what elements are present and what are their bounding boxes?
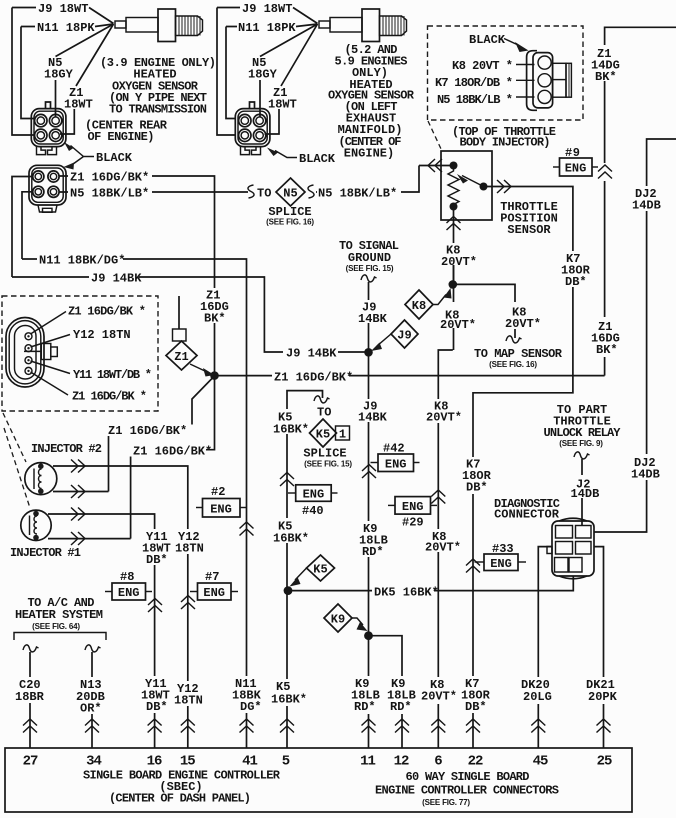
squiggle C20 <box>23 645 39 652</box>
svg-text:HEATER SYSTEM: HEATER SYSTEM <box>15 608 103 622</box>
svg-text:GROUND: GROUND <box>348 251 391 265</box>
oxygen sensor B1 body <box>115 9 203 42</box>
svg-text:20PK: 20PK <box>588 690 618 704</box>
arrow Z1 splice to junction <box>190 364 206 372</box>
svg-text:15: 15 <box>180 754 195 770</box>
label K5 16BK upper <box>272 409 308 434</box>
svg-text:J9 14BK: J9 14BK <box>91 272 142 286</box>
pin leader lines <box>31 312 67 335</box>
dashed leader to TPS box <box>428 121 442 150</box>
svg-text:DB*: DB* <box>565 275 587 289</box>
svg-text:20VT*: 20VT* <box>425 541 461 555</box>
connector chevron pin45 <box>531 719 545 733</box>
svg-text:K8 20VT *: K8 20VT * <box>452 59 513 73</box>
wire injector 2 bottom to Z1 <box>53 491 109 493</box>
connector chevron pin34 <box>85 719 99 733</box>
svg-text:BK*: BK* <box>596 343 618 357</box>
svg-text:J9 18WT: J9 18WT <box>38 2 88 16</box>
wire Z1 16DG/BK label-1 riser (injector 2) <box>192 376 215 425</box>
junction node K9 <box>364 631 373 640</box>
svg-text:Z1: Z1 <box>174 350 188 364</box>
label N13 20DB OR <box>73 677 109 714</box>
connector chevron into TPS <box>428 159 442 172</box>
injector #2 symbol <box>25 463 57 495</box>
svg-text:ENG: ENG <box>565 162 587 176</box>
svg-text:#40: #40 <box>302 504 324 518</box>
ENG #40 inline connector <box>296 485 332 502</box>
svg-text:1: 1 <box>339 428 346 442</box>
svg-text:ENG: ENG <box>490 557 512 571</box>
squiggle N13 <box>85 645 101 652</box>
label K9 18LB RD pin11 <box>349 676 384 714</box>
svg-text:INJECTOR #1: INJECTOR #1 <box>10 546 81 560</box>
svg-text:J9 14BK: J9 14BK <box>286 347 337 361</box>
wire C2 pin to J9 trunk <box>12 177 33 278</box>
wire C20 18BR <box>29 652 31 748</box>
wire J2 14DB <box>581 459 583 525</box>
svg-text:18GY: 18GY <box>248 68 278 82</box>
arrow K5 splice to junction <box>295 568 307 580</box>
SBEC box <box>5 748 632 812</box>
splice symbol Z1 diamond with pin box <box>178 296 180 329</box>
svg-text:BLACK: BLACK <box>299 152 336 166</box>
wire DJ2 14DB from right edge <box>647 139 676 186</box>
svg-text:CONNECTOR: CONNECTOR <box>494 508 560 522</box>
label Y11 18WT DB mid <box>141 529 171 565</box>
connector chevron pin41 <box>240 719 254 733</box>
junction node K5/DK5 <box>284 586 293 595</box>
arrow K8 splice to junction <box>433 295 446 305</box>
svg-text:ENG: ENG <box>210 503 232 517</box>
svg-text:DB*: DB* <box>146 700 168 714</box>
svg-text:BK*: BK* <box>595 70 617 84</box>
wire N5 18BK/LB from connector C2 <box>59 191 248 193</box>
svg-text:ENG: ENG <box>118 586 140 600</box>
connector chevron J9 <box>362 465 376 479</box>
svg-text:TO MAP SENSOR: TO MAP SENSOR <box>474 347 563 361</box>
svg-text:BLACK: BLACK <box>469 33 506 47</box>
label K8 20VT below junction <box>438 302 476 328</box>
svg-text:18TN: 18TN <box>175 542 204 556</box>
svg-text:11: 11 <box>360 754 375 770</box>
svg-text:#8: #8 <box>120 570 134 584</box>
label K7 18OR DB upper <box>561 251 589 287</box>
svg-text:Y12 18TN: Y12 18TN <box>73 328 131 342</box>
svg-text:N5 18BK/LB *: N5 18BK/LB * <box>437 93 513 107</box>
connector chevron pin15 <box>181 719 195 733</box>
connector chevron pin22 <box>466 719 480 733</box>
connector chevron pin25 <box>597 719 611 733</box>
wire Z1 16DG/BK from connector C2 top pin <box>59 176 215 376</box>
wire DK21 20PK <box>594 547 604 748</box>
label K7 18OR DB mid <box>461 457 491 494</box>
svg-text:(SEE FIG. 64): (SEE FIG. 64) <box>32 622 80 631</box>
wire K7 from TPS wiper <box>473 187 573 749</box>
svg-text:K8: K8 <box>412 299 426 313</box>
dashed leaders to injectors <box>3 413 26 462</box>
potentiometer resistor element <box>448 168 459 206</box>
splice symbol J9 diamond <box>391 320 418 348</box>
svg-text:6: 6 <box>434 754 442 770</box>
label K9 18LB RD pin12 <box>385 676 420 714</box>
connector C2 harness-side (4-pin) <box>29 165 66 212</box>
label K8 20VT mid trunk <box>424 399 460 423</box>
junction node Z1 <box>210 371 219 380</box>
svg-text:20VT*: 20VT* <box>421 690 457 704</box>
connector C1 sensor-side (4-pin) <box>31 102 66 155</box>
squiggle to part throttle unlock relay <box>574 452 590 459</box>
label Y11 18WT DB bottom <box>139 676 172 713</box>
svg-text:OF ENGINE): OF ENGINE) <box>88 130 155 144</box>
wire Z1 14DG/BK from top right <box>605 27 676 45</box>
svg-text:20VT*: 20VT* <box>441 255 477 269</box>
svg-text:Z1 16DG/BK*: Z1 16DG/BK* <box>274 371 353 385</box>
svg-text:#7: #7 <box>205 570 219 584</box>
svg-text:14DB: 14DB <box>571 487 600 501</box>
wire K5 16BK trunk <box>287 391 323 748</box>
svg-text:(SEE FIG. 77): (SEE FIG. 77) <box>422 798 470 807</box>
label J9 14BK vertical stack <box>357 300 385 323</box>
label K9 18LB RD mid <box>358 521 388 557</box>
splice symbol K9 diamond <box>324 604 352 632</box>
squiggle to signal ground <box>361 275 377 282</box>
wire injector 2 top to Y12 <box>53 466 188 748</box>
oval 4-pin connector <box>6 318 57 388</box>
svg-text:DB*: DB* <box>146 553 168 567</box>
svg-text:DK5 16BK*: DK5 16BK* <box>374 586 439 600</box>
svg-text:14DB: 14DB <box>632 199 661 213</box>
svg-text:ENG: ENG <box>385 458 407 472</box>
svg-text:18WT: 18WT <box>268 98 297 112</box>
junction node K8 <box>449 280 458 289</box>
wire injector 1 top to Y11 <box>48 514 155 748</box>
connector chevron injector 2 bottom <box>71 485 85 498</box>
connector chevron injector 2 top <box>71 460 85 473</box>
svg-text:Z1 16DG/BK *: Z1 16DG/BK * <box>72 390 147 404</box>
label K5 16BK mid <box>272 518 308 543</box>
connector chevron pin5 <box>280 719 294 733</box>
wire N13 20DB/OR <box>91 652 93 748</box>
svg-text:BODY INJECTOR): BODY INJECTOR) <box>460 136 551 150</box>
svg-text:BLACK: BLACK <box>96 151 133 165</box>
wire C2 pin to N11 trunk <box>22 192 33 259</box>
connector chevron injector 1 bottom <box>71 532 85 545</box>
svg-text:18TN: 18TN <box>174 694 203 708</box>
arrow J9 splice to junction <box>377 334 391 346</box>
svg-text:TO: TO <box>257 187 271 201</box>
svg-text:N5 18BK/LB*: N5 18BK/LB* <box>318 187 397 201</box>
svg-text:18GY: 18GY <box>44 68 74 82</box>
wire J9 14BK horizontal <box>12 277 369 352</box>
splice symbol K5 diamond with pin box 1 <box>336 426 350 440</box>
svg-text:(SEE FIG. 15): (SEE FIG. 15) <box>346 264 394 273</box>
svg-text:ENG: ENG <box>303 488 325 502</box>
wire K8 trunk with jog <box>438 265 453 748</box>
dashed outline throttle body injector <box>428 26 584 120</box>
connector chevron pin12 <box>395 719 409 733</box>
svg-text:RD*: RD* <box>354 700 376 714</box>
svg-text:16BK*: 16BK* <box>273 423 309 437</box>
TPS box <box>441 151 492 220</box>
svg-text:14BK: 14BK <box>358 411 388 425</box>
svg-text:12: 12 <box>394 754 409 770</box>
svg-text:UNLOCK RELAY: UNLOCK RELAY <box>544 426 622 440</box>
svg-text:Z1 16DG/BK*: Z1 16DG/BK* <box>70 171 149 185</box>
splice interrupt squiggle right <box>308 185 314 198</box>
svg-text:(SEE FIG. 16): (SEE FIG. 16) <box>266 218 314 227</box>
diagnostic connector J2 body <box>559 518 587 521</box>
wire DK20 20LG <box>538 547 552 748</box>
svg-text:Z1 16DG/BK*: Z1 16DG/BK* <box>133 445 212 459</box>
splice symbol K8 diamond <box>405 290 433 319</box>
svg-text:20VT*: 20VT* <box>440 318 476 332</box>
arrow K9 splice to junction <box>352 618 363 625</box>
svg-text:N5 18BK/LB*: N5 18BK/LB* <box>70 187 149 201</box>
injector #1 symbol <box>21 510 51 540</box>
oxygen sensor B2 body <box>319 9 407 42</box>
svg-text:RD*: RD* <box>390 700 412 714</box>
svg-text:ENG: ENG <box>402 500 424 514</box>
svg-text:J9: J9 <box>397 329 411 343</box>
label Y12 18TN mid <box>174 529 204 554</box>
wiper arrow <box>462 176 484 187</box>
svg-text:SENSOR: SENSOR <box>507 223 551 237</box>
splice symbol N5 diamond <box>276 178 305 206</box>
svg-text:N11 18BK/DG*: N11 18BK/DG* <box>39 254 125 268</box>
connector chevron on Z1 line <box>598 165 612 179</box>
label K8 20VT below TPS <box>441 243 479 265</box>
svg-text:Y11 18WT/DB *: Y11 18WT/DB * <box>73 368 152 382</box>
to signal ground stub <box>368 282 370 352</box>
dashed outline injector connector box <box>2 296 158 411</box>
connector chevron injector 1 top <box>71 508 85 521</box>
connector chevron pin11 <box>362 719 376 733</box>
wire K8 to map sensor branch <box>453 284 515 338</box>
wire DK5 16BK to diagnostic connector <box>288 576 573 591</box>
svg-text:OR*: OR* <box>80 702 102 716</box>
svg-text:(SEE FIG. 16): (SEE FIG. 16) <box>489 360 537 369</box>
connector chevron pin16 <box>148 719 162 733</box>
wire injector 1 bottom to Z1 <box>48 538 131 540</box>
label C20 18BR <box>13 677 47 703</box>
splice interrupt squiggle left <box>248 185 254 198</box>
label DK21 20PK <box>584 677 622 704</box>
svg-text:20LG: 20LG <box>523 690 552 704</box>
svg-text:K9: K9 <box>331 613 345 627</box>
terminal node bottom <box>450 203 458 211</box>
connector chevron pin6 <box>431 719 445 733</box>
squiggle to map sensor <box>506 336 522 343</box>
squiggle K5 to splice <box>314 396 330 403</box>
svg-text:14DB: 14DB <box>631 468 660 482</box>
svg-text:16BK*: 16BK* <box>271 693 307 707</box>
svg-text:Z1 16DG/BK*: Z1 16DG/BK* <box>108 424 187 438</box>
svg-text:20VT*: 20VT* <box>426 411 462 425</box>
label K5 16BK bottom <box>269 679 307 706</box>
wire N5 into TPS <box>419 165 451 167</box>
svg-text:18WT: 18WT <box>64 98 93 112</box>
svg-text:34: 34 <box>86 754 101 770</box>
wire Z1 16DG/BK horizontal bus <box>215 375 605 377</box>
svg-text:5: 5 <box>282 754 290 770</box>
svg-text:27: 27 <box>23 754 38 770</box>
connector chevron K7 <box>466 559 480 573</box>
connector chevron Y12 <box>181 596 195 610</box>
label Y12 18TN bottom <box>172 681 204 706</box>
svg-text:K7 18OR/DB *: K7 18OR/DB * <box>435 76 513 90</box>
injector connector (3-way) <box>527 51 572 111</box>
svg-text:DB*: DB* <box>465 700 487 714</box>
svg-text:14BK: 14BK <box>358 312 388 326</box>
label K7 18OR DB pin22 <box>459 676 491 713</box>
label K8 20VT lower trunk <box>424 529 460 552</box>
connector C3 sensor-side (4-pin) <box>235 102 270 155</box>
svg-text:K5: K5 <box>316 428 330 442</box>
svg-text:INJECTOR #2: INJECTOR #2 <box>31 442 102 456</box>
pin cavities <box>556 526 573 539</box>
svg-text:N11 18PK: N11 18PK <box>37 21 95 35</box>
wire K9 branch to pin 12 <box>369 636 403 748</box>
svg-text:BK*: BK* <box>204 312 226 326</box>
svg-text:(CENTER OF DASH PANEL): (CENTER OF DASH PANEL) <box>109 792 251 806</box>
svg-text:25: 25 <box>597 754 612 770</box>
svg-text:N5: N5 <box>283 187 297 201</box>
svg-text:18BR: 18BR <box>15 690 45 704</box>
svg-text:J9 18WT: J9 18WT <box>242 2 292 16</box>
svg-text:22: 22 <box>468 754 483 770</box>
wire N5 18BK/LB right to TPS <box>316 166 419 193</box>
svg-text:SPLICE: SPLICE <box>303 447 346 461</box>
svg-text:TO TRANSMISSION: TO TRANSMISSION <box>109 103 207 117</box>
bracket <box>14 633 106 641</box>
svg-text:Z1 16DG/BK *: Z1 16DG/BK * <box>68 305 146 319</box>
svg-text:K5: K5 <box>313 563 327 577</box>
junction node J9 <box>364 348 373 357</box>
svg-text:N11 18PK: N11 18PK <box>238 21 296 35</box>
connector chevron K5 <box>280 473 294 487</box>
svg-text:ENGINE CONTROLLER CONNECTORS: ENGINE CONTROLLER CONNECTORS <box>375 784 559 798</box>
connector chevron N11 <box>240 522 254 536</box>
wire Z1 junction down to injector feeds <box>206 376 215 450</box>
terminal node top <box>450 162 458 170</box>
svg-text:#2: #2 <box>211 485 225 499</box>
svg-text:DG*: DG* <box>240 700 262 714</box>
label K8 20VT pin6 <box>420 677 458 704</box>
svg-text:20VT*: 20VT* <box>505 317 541 331</box>
svg-text:41: 41 <box>242 754 257 770</box>
wiper node <box>480 183 488 191</box>
svg-text:ENG: ENG <box>203 586 225 600</box>
wire K8 from TPS bottom <box>453 209 455 281</box>
svg-text:16BK*: 16BK* <box>273 532 309 546</box>
label J9 14BK lower stack <box>356 399 386 422</box>
connector chevron K8 below TPS <box>447 217 461 231</box>
svg-text:#29: #29 <box>402 516 424 530</box>
svg-text:(SEE FIG. 15): (SEE FIG. 15) <box>304 460 352 469</box>
connector chevron pin27 <box>23 719 37 733</box>
svg-text:45: 45 <box>533 754 548 770</box>
svg-text:16: 16 <box>147 754 162 770</box>
svg-text:60 WAY SINGLE BOARD: 60 WAY SINGLE BOARD <box>406 770 530 784</box>
connector chevron Y11 <box>148 599 162 613</box>
label N11 18BK DG bottom <box>230 676 264 713</box>
svg-text:(SEE FIG. 9): (SEE FIG. 9) <box>559 439 603 448</box>
splice symbol K5 diamond lower <box>307 555 335 581</box>
connector chevron K8 trunk <box>431 490 445 504</box>
label Z1 16DG BK on vertical <box>200 288 233 323</box>
wire N11 18BK/DG horizontal <box>22 259 247 748</box>
svg-text:TO: TO <box>317 406 331 420</box>
svg-text:RD*: RD* <box>362 545 384 559</box>
label DK20 20LG <box>519 677 557 704</box>
ENG #29 inline connector <box>395 497 431 514</box>
wire J9/K9 trunk down to pin 11 <box>368 352 370 748</box>
svg-text:DB*: DB* <box>466 481 488 495</box>
connector chevron out of TPS <box>497 180 511 193</box>
svg-text:ENGINE): ENGINE) <box>344 146 394 160</box>
